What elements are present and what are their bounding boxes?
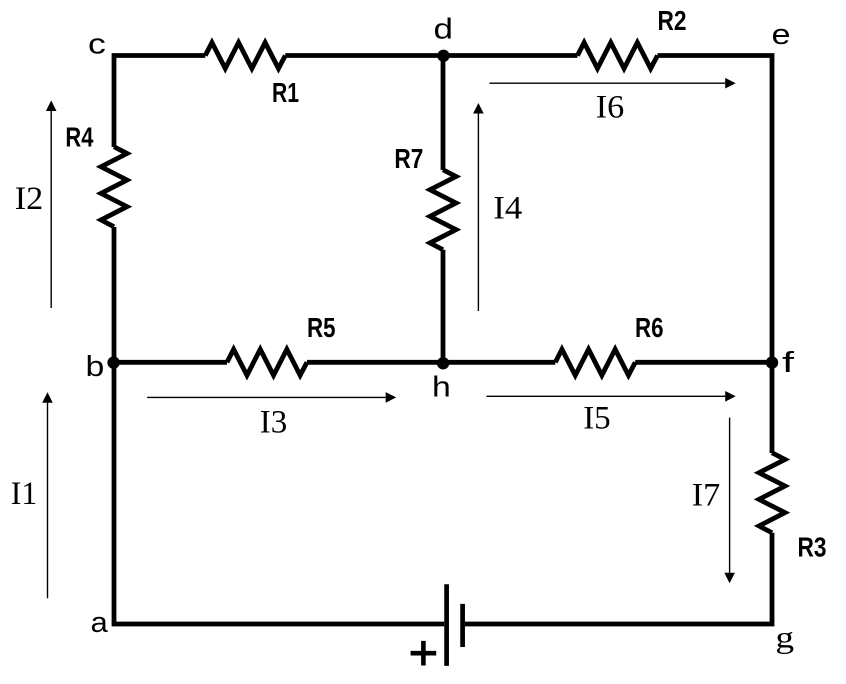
svg-text:R1: R1 [272,77,299,108]
svg-text:c: c [88,29,106,61]
current arrow I2 [46,101,57,309]
node b [107,356,119,368]
current arrow I4 [473,103,484,311]
svg-text:I2: I2 [15,181,44,217]
wire middle row b-to-R5 [114,360,227,365]
svg-text:R4: R4 [65,121,94,152]
resistor R4 [101,147,127,227]
svg-text:R6: R6 [635,312,664,343]
svg-text:f: f [782,347,795,379]
resistor R7 [430,170,456,250]
resistor R2 [578,43,658,69]
svg-text:R7: R7 [394,143,423,174]
battery plus sign [411,641,437,666]
wire middle vertical d-to-R7 [441,56,446,171]
wire e-corner: top wire from R2 + right wire down to R3 [658,56,773,454]
current arrow I6 [490,78,736,89]
wire a-corner: bottom wire from battery + left wire up to R4 [114,227,444,624]
battery negative plate (short) [460,604,465,647]
current arrow I3 [147,392,396,403]
svg-text:I6: I6 [596,90,625,126]
svg-text:I7: I7 [692,478,721,514]
svg-text:g: g [775,620,794,655]
resistor R5 [227,349,307,375]
battery positive plate (long) [444,584,449,666]
svg-text:I1: I1 [11,476,38,512]
svg-text:R5: R5 [307,312,336,343]
svg-text:R3: R3 [798,532,827,563]
resistor R1 [205,43,285,69]
svg-text:h: h [432,372,451,404]
resistor R3 [759,453,785,533]
node d [437,50,449,62]
current arrow I5 [487,391,736,402]
wire g-corner: right wire below R3 + bottom wire to battery [465,533,772,624]
svg-text:d: d [434,14,454,46]
wire top middle R1-to-R2 through node d [285,53,577,58]
svg-text:a: a [91,607,109,639]
wire middle vertical R7-to-h [441,250,446,362]
node h [437,357,449,369]
current arrow I7 [724,418,735,584]
svg-text:I3: I3 [260,405,288,441]
node f [766,356,778,368]
wire c-corner: left wire top segment + top wire to R1 [114,56,205,148]
current arrow I1 [42,392,53,598]
svg-text:R2: R2 [658,5,687,36]
svg-text:I4: I4 [493,191,522,227]
resistor R6 [555,349,635,375]
wire middle row R6-to-f [635,360,772,365]
svg-text:I5: I5 [583,401,611,437]
svg-text:e: e [772,19,791,51]
svg-text:b: b [86,351,105,383]
wire middle row R5-to-R6 through node h [307,360,555,365]
